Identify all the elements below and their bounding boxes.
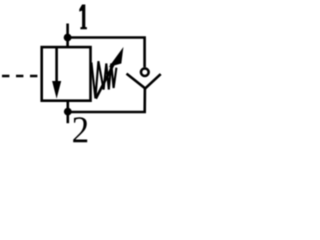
port label 1 <box>79 5 87 30</box>
adjustable spring <box>91 61 116 98</box>
adjustment arrow shaft <box>96 61 116 99</box>
wire: top rail <box>68 38 145 68</box>
wire: bottom port from valve <box>67 101 70 113</box>
wire: right rail lower and bottom rail <box>68 88 145 112</box>
wire: bottom stub to port 2 <box>67 112 70 124</box>
node 2 junction dot <box>64 108 72 116</box>
port label 2 <box>73 117 87 142</box>
adjustment arrow head <box>109 47 124 67</box>
check valve ball <box>141 68 149 76</box>
valve envelope box <box>42 47 91 101</box>
wire: top port into valve <box>66 38 69 48</box>
flow path arrow inside box <box>55 47 58 83</box>
pilot line (dashed) <box>2 75 42 78</box>
wire: top stub to port 1 <box>66 24 69 38</box>
node 1 junction dot <box>64 34 72 42</box>
check valve seat <box>127 74 161 89</box>
